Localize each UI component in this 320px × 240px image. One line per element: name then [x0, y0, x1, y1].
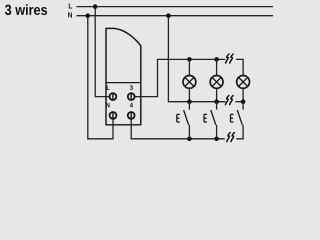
break symbol (pushbutton bottom bus): [227, 133, 235, 142]
wire N feed to terminal N: [88, 16, 113, 139]
terminal 4: [128, 112, 135, 119]
pushbutton S3 actuator E: [231, 114, 234, 122]
break symbol (pushbutton top bus): [226, 96, 234, 105]
title "3 wires": [5, 4, 47, 15]
terminal L: [110, 93, 117, 100]
junction dot bottom bus / pushbutton S2: [214, 137, 219, 142]
lamp E1 top stub: [188, 59, 190, 75]
pushbutton S1 blade: [184, 110, 189, 125]
lamp E3: [237, 76, 250, 89]
pushbutton S2 top stub: [216, 102, 218, 110]
wire terminal 4 to pushbutton bottom bus: [131, 115, 225, 138]
junction dot on L line: [93, 4, 98, 9]
wire lamp bus continuation to lamp E3: [236, 59, 243, 75]
wire N to pushbutton top bus: [168, 16, 225, 102]
lamp E2: [210, 76, 223, 89]
junction dot lamp E3 / pushbutton S3: [241, 99, 246, 104]
junction dot on N line (left): [86, 13, 91, 18]
junction dot pushbutton bus / lamp E2: [214, 99, 219, 104]
pushbutton S2 blade: [211, 110, 216, 125]
wire N line: [77, 15, 274, 17]
pushbutton S1 bottom stub: [188, 125, 190, 139]
wire terminal 3 to lamp bus: [131, 59, 225, 96]
lamp E2 bottom stub: [216, 88, 218, 101]
terminal label 3: [130, 85, 133, 90]
dimmer module U1 outline: [106, 28, 141, 124]
junction dot lamp bus / lamp E1: [187, 57, 192, 62]
terminal label 4: [130, 103, 133, 108]
pushbutton S2 actuator E: [204, 114, 207, 122]
lamp E3 bottom stub: [242, 88, 244, 101]
pushbutton S2 bottom stub: [216, 125, 218, 139]
wire pushbutton top bus continuation: [235, 101, 243, 103]
junction dot lamp bus / lamp E2: [214, 57, 219, 62]
junction dot bottom bus / pushbutton S1: [187, 137, 192, 142]
pushbutton S3 top stub: [242, 102, 244, 110]
module terminal block divider: [106, 82, 141, 84]
terminal label N: [106, 103, 109, 108]
junction dot on N line (right): [166, 13, 171, 18]
lamp E2 top stub: [216, 59, 218, 75]
label L (phase): [69, 3, 72, 8]
label N (neutral): [68, 12, 72, 17]
wire L feed to terminal L: [95, 7, 113, 97]
junction dot pushbutton bus / lamp E1: [187, 99, 192, 104]
terminal 3: [128, 93, 135, 100]
lamp E1 bottom stub: [188, 88, 190, 101]
break symbol (lamp bus continuation): [226, 54, 234, 63]
pushbutton S3 blade: [237, 110, 242, 125]
pushbutton S3 bottom stub and link to bus: [236, 125, 243, 139]
lamp E1: [183, 76, 196, 89]
wire L line: [77, 6, 274, 8]
terminal N: [110, 112, 117, 119]
pushbutton S1 actuator E: [177, 114, 180, 122]
pushbutton S1 top stub: [188, 102, 190, 110]
terminal label L: [107, 85, 110, 90]
